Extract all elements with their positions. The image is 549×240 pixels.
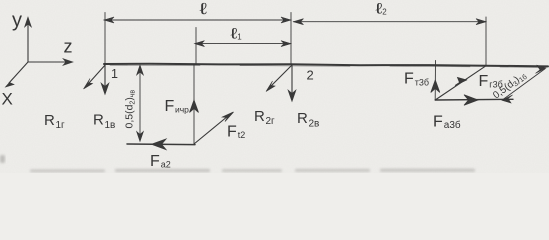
extension line at point 2 xyxy=(290,13,292,65)
label l2 xyxy=(376,1,388,18)
label R1B xyxy=(93,112,115,132)
gear3 force application line xyxy=(434,61,436,101)
beam (shaft axis) xyxy=(104,64,548,67)
dimension line l xyxy=(104,17,291,23)
beam scan doubling xyxy=(110,65,544,67)
label Ft3b xyxy=(404,71,429,88)
extension line right end xyxy=(485,17,487,66)
label Fa3b xyxy=(433,114,461,132)
extension line at gear 2 xyxy=(195,28,197,65)
reaction R2B (vertical down at point 2) xyxy=(288,65,296,102)
dimension 0,5(d2) radius xyxy=(137,65,144,142)
force Fr4p (radial up at gear 2) xyxy=(190,100,199,113)
dimension line l2 xyxy=(294,19,487,25)
reaction R1G (diagonal down-left at point 1) xyxy=(84,64,107,89)
force Ft3b (vertical up at gear 3) xyxy=(431,80,440,93)
label Fr3b xyxy=(479,73,503,90)
left edge scan mark xyxy=(0,155,5,163)
axis y xyxy=(25,17,32,62)
gear2 force application line xyxy=(193,64,195,144)
label Ft2 xyxy=(227,124,245,141)
label l1 xyxy=(231,26,243,43)
reaction R2G (diagonal down-left at point 2) xyxy=(266,65,292,92)
axis x xyxy=(6,62,29,87)
bottom scan smudge band xyxy=(30,169,475,172)
force Fa2 (axial left along bottom) xyxy=(127,139,195,150)
axis z xyxy=(28,59,73,66)
dimension 0,5(d3) radius diagonal xyxy=(502,65,546,103)
force Ft2 (diagonal up-right from corner) xyxy=(194,112,234,144)
reaction R1B (vertical down at point 1) xyxy=(101,64,109,95)
label R2G xyxy=(254,108,275,127)
label 0,5(d3) rotated xyxy=(491,70,529,102)
label R1G xyxy=(44,112,65,131)
label 0,5(d2) rotated xyxy=(124,90,137,129)
label Fr4p xyxy=(165,98,190,115)
label R2B xyxy=(297,110,319,130)
paper background xyxy=(0,0,549,173)
dimension line l1 xyxy=(195,41,292,47)
force Fa3b (axial right at gear 3) xyxy=(435,95,513,105)
force Fr3b (diagonal up-right at gear 3) xyxy=(435,66,485,100)
extension line at point 1 xyxy=(104,13,106,65)
label Fa2 xyxy=(150,153,171,170)
scan noise xyxy=(0,0,1,1)
